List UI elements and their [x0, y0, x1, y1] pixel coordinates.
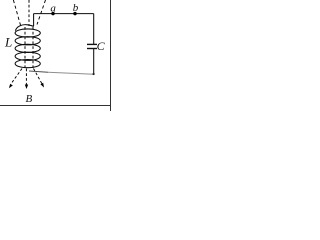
node b: [73, 12, 76, 15]
svg-text:B: B: [26, 93, 33, 105]
wire bottom rail left segment: [29, 71, 48, 72]
field line left below coil: [11, 69, 22, 84]
inductor L turn 5: [15, 60, 40, 68]
field line right inside coil: [32, 27, 34, 68]
wire top vertical from coil to top rail: [33, 14, 35, 26]
svg-text:b: b: [73, 2, 79, 14]
junction bottom-right corner: [93, 73, 95, 75]
inductor L turn 2: [15, 37, 40, 45]
inductor L turn 3: [15, 44, 40, 52]
field line center below coil: [25, 69, 27, 86]
inductor L turn 4: [15, 52, 40, 60]
capacitor C bottom plate: [87, 48, 97, 50]
arrowhead left field line: [9, 84, 13, 89]
arrowhead center field line: [25, 85, 28, 90]
wire bottom rail right segment (faint): [48, 72, 94, 74]
figure border bottom: [0, 105, 111, 107]
capacitor C top plate: [87, 43, 97, 45]
wire right lower: [93, 49, 95, 75]
figure border right: [110, 0, 112, 111]
svg-text:C: C: [97, 39, 106, 53]
field line right above coil: [37, 0, 46, 25]
inductor L top half-turn: [15, 25, 33, 31]
arrowhead right field line: [40, 83, 44, 88]
field line center above coil: [28, 0, 30, 26]
wire top rail: [34, 13, 94, 15]
field line left above coil: [13, 0, 20, 26]
field line left inside coil: [24, 27, 26, 68]
svg-text:a: a: [50, 2, 56, 14]
svg-text:L: L: [4, 35, 12, 50]
field line right below coil: [34, 69, 43, 85]
inductor L turn 1: [15, 29, 40, 37]
node a: [51, 12, 54, 15]
wire right upper: [93, 14, 95, 44]
